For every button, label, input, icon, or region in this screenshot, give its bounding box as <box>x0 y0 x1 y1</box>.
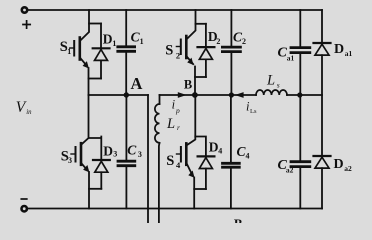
svg-text:2: 2 <box>242 37 246 46</box>
svg-text:i: i <box>172 98 176 112</box>
svg-text:1: 1 <box>67 47 71 56</box>
svg-text:a2: a2 <box>344 164 352 173</box>
svg-text:S: S <box>165 43 173 59</box>
svg-text:a2: a2 <box>286 166 294 175</box>
svg-text:B: B <box>184 77 192 91</box>
svg-text:in: in <box>26 109 32 116</box>
svg-text:p: p <box>175 106 180 115</box>
svg-text:r: r <box>177 123 180 132</box>
svg-text:S: S <box>166 153 174 169</box>
svg-text:3: 3 <box>113 150 117 159</box>
svg-text:B: B <box>234 216 243 223</box>
svg-text:D: D <box>103 31 113 46</box>
svg-text:L: L <box>266 73 275 89</box>
svg-text:3: 3 <box>138 150 142 159</box>
svg-text:2: 2 <box>216 37 220 46</box>
svg-text:3: 3 <box>68 156 72 165</box>
svg-text:A: A <box>131 74 143 93</box>
svg-text:D: D <box>103 144 113 159</box>
svg-text:1: 1 <box>140 37 144 46</box>
svg-text:4: 4 <box>218 146 222 155</box>
svg-text:Ls: Ls <box>250 108 257 115</box>
svg-text:1: 1 <box>112 39 116 48</box>
svg-text:D: D <box>334 157 344 172</box>
svg-text:L: L <box>166 116 175 132</box>
svg-text:D: D <box>334 42 344 57</box>
svg-text:4: 4 <box>246 151 250 160</box>
svg-text:a1: a1 <box>287 53 295 62</box>
svg-text:a1: a1 <box>345 49 353 58</box>
svg-text:D: D <box>209 139 219 154</box>
svg-text:s: s <box>277 81 280 90</box>
svg-text:V: V <box>16 99 27 116</box>
svg-text:C: C <box>127 143 137 158</box>
svg-text:2: 2 <box>176 50 180 60</box>
